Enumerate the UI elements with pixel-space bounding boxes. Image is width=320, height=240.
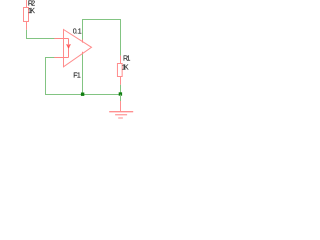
bottom output pin stub: [82, 52, 84, 55]
svg-text:K: K: [124, 65, 129, 72]
svg-text:1: 1: [77, 73, 81, 80]
svg-text:1: 1: [78, 28, 82, 35]
wire bus to ground: [120, 95, 122, 102]
wire lower control pin to ground bus: [46, 58, 55, 95]
svg-text:K: K: [30, 8, 35, 15]
wire R1 bottom to bus: [120, 85, 122, 95]
lower control pin line: [54, 57, 68, 59]
arrowhead: [67, 44, 71, 47]
upper control pin line: [54, 38, 68, 40]
resistor R2: [24, 0, 29, 30]
triangle body: [64, 30, 92, 67]
top output pin stub: [82, 39, 84, 42]
control current line: [68, 39, 70, 58]
junction node at bus, R1 and ground: [119, 92, 122, 95]
wire F1 top output to top net: [83, 20, 121, 56]
svg-text:2: 2: [31, 1, 35, 8]
wire ground bus: [45, 94, 122, 96]
resistor R1: [117, 56, 122, 85]
wire F1 bottom output to bus: [82, 54, 84, 94]
wire R2 to F1 upper control pin: [27, 30, 55, 39]
svg-text:1: 1: [127, 56, 131, 63]
ground symbol: [109, 101, 133, 118]
CCCS F1: [54, 30, 91, 67]
junction node at bus and F1 output: [81, 93, 84, 96]
